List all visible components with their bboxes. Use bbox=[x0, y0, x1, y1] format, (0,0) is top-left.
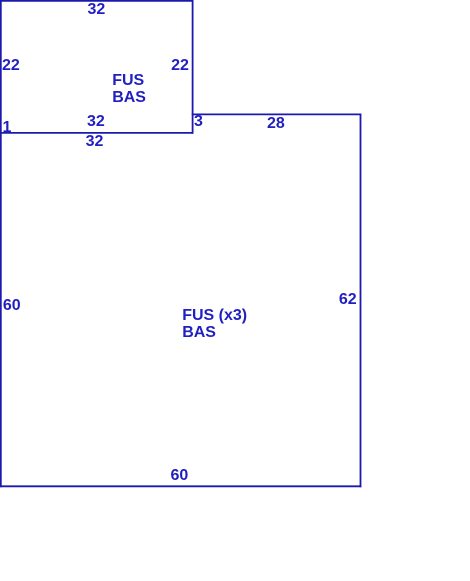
dimension 1 (bottom-left corner) bbox=[3, 119, 12, 136]
panel FUS (x3) upper-right top edge bbox=[193, 113, 361, 115]
dimension 32 (top-left edge of FUS (x3) panel, below shared line) bbox=[86, 133, 104, 150]
dimension 32 (bottom edge of FUS BAS panel, above shared line) bbox=[87, 113, 105, 130]
panel FUS (x3) bottom edge bbox=[1, 485, 361, 487]
part name FUS (x3) BAS bbox=[182, 307, 247, 341]
dimension 32 (top edge of FUS BAS panel) bbox=[88, 1, 106, 18]
dimension 22 (left edge of FUS BAS panel) bbox=[2, 57, 20, 74]
dimension 3 (step height) bbox=[194, 113, 203, 130]
dimension 60 (bottom edge of FUS (x3) panel) bbox=[171, 467, 189, 484]
left edge (shared by both panels) bbox=[0, 1, 2, 487]
part name FUS BAS bbox=[112, 72, 146, 106]
dimension 60 (left edge of FUS (x3) panel) bbox=[3, 297, 21, 314]
panel FUS BAS top edge bbox=[1, 0, 193, 2]
panel FUS (x3) right edge bbox=[360, 114, 362, 486]
dimension 28 (upper-right top edge of FUS (x3) panel) bbox=[267, 115, 285, 132]
dimension 62 (right edge of FUS (x3) panel) bbox=[339, 291, 357, 308]
dimension 22 (right edge of FUS BAS panel) bbox=[171, 57, 189, 74]
panel FUS BAS right edge with 3-unit step bbox=[192, 1, 194, 133]
shared edge between FUS BAS panel and FUS (x3) panel bbox=[1, 132, 193, 134]
